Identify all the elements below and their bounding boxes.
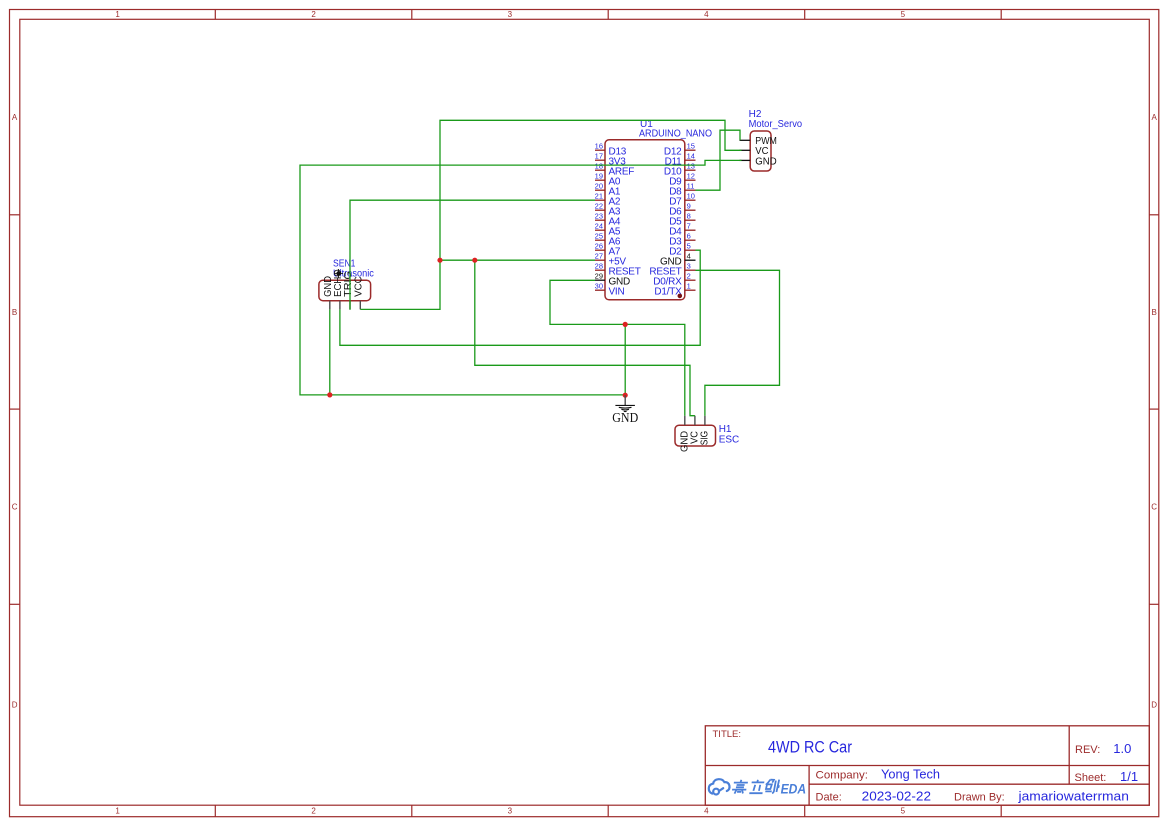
svg-text:1: 1: [115, 10, 120, 19]
pin 2 D0/RX (U1 right): [653, 272, 695, 288]
pin 8 D5 (U1 right): [669, 212, 695, 228]
svg-text:D: D: [1151, 701, 1157, 710]
svg-text:22: 22: [595, 202, 603, 211]
svg-text:1: 1: [115, 807, 120, 816]
wire net GND: SEN1.GND down to GND run: [329, 309, 331, 395]
IC U1 ARDUINO_NANO: [605, 119, 712, 300]
svg-text:Yong Tech: Yong Tech: [881, 766, 940, 781]
svg-text:4: 4: [687, 252, 691, 261]
svg-text:4WD RC Car: 4WD RC Car: [768, 739, 852, 757]
pin 11 D8 (U1 right): [669, 182, 695, 198]
svg-text:VCC: VCC: [353, 276, 364, 297]
svg-text:2: 2: [311, 10, 316, 19]
junction +5V / top wire: [437, 258, 442, 263]
svg-text:11: 11: [687, 182, 695, 191]
svg-text:C: C: [12, 503, 18, 512]
svg-text:3: 3: [508, 10, 513, 19]
svg-text:3: 3: [508, 807, 513, 816]
pin H1.VC: [689, 416, 700, 444]
svg-text:2023-02-22: 2023-02-22: [862, 788, 931, 803]
svg-text:C: C: [1151, 503, 1157, 512]
wire net GND: U1 pin 29 GND left-down to H1.GND: [550, 280, 685, 415]
svg-text:6: 6: [687, 232, 691, 241]
svg-text:5: 5: [901, 10, 906, 19]
svg-text:VIN: VIN: [609, 286, 625, 297]
svg-text:15: 15: [687, 142, 695, 151]
pin SEN1.ECHO: [333, 269, 344, 309]
wire net +5V: H2.VC to x440 vertical down to SEN1.VCC: [360, 120, 741, 309]
JLC EDA logo (cloud): [709, 779, 730, 794]
pin 27 +5V (U1 left): [595, 252, 627, 268]
svg-text:23: 23: [595, 212, 603, 221]
pin 28 RESET (U1 left): [595, 262, 641, 278]
pin 3 RESET (U1 right): [649, 262, 695, 278]
connector H1 ESC: [675, 424, 739, 446]
svg-text:3: 3: [687, 262, 691, 271]
wire net TRIG: U1 pin 21 A2 to SEN1.TRIG: [350, 200, 595, 310]
svg-text:REV:: REV:: [1075, 744, 1100, 756]
svg-text:14: 14: [687, 152, 695, 161]
U1 origin anchor dot (near D1/TX): [678, 294, 683, 299]
svg-text:Sheet:: Sheet:: [1075, 772, 1107, 784]
junction GND wire / SEN1.GND: [327, 392, 332, 397]
pin 16 D13 (U1 left): [595, 142, 627, 158]
pin 5 D2 (U1 right): [669, 242, 695, 258]
svg-text:Motor_Servo: Motor_Servo: [749, 119, 803, 130]
pin SEN1.TRIG: [343, 271, 354, 310]
svg-text:2: 2: [687, 272, 691, 281]
pin 21 A2 (U1 left): [595, 192, 621, 208]
svg-text:1.0: 1.0: [1113, 741, 1131, 756]
pin 20 A1 (U1 left): [595, 182, 621, 198]
connector H2 Motor_Servo: [749, 109, 803, 171]
wire net SIG: U1 pin 3 RESET right-down to H1.SIG: [696, 270, 780, 415]
svg-text:9: 9: [687, 202, 691, 211]
pin 10 D7 (U1 right): [669, 192, 695, 208]
svg-text:GND: GND: [612, 410, 638, 425]
svg-text:B: B: [12, 308, 17, 317]
pin SEN1.GND: [323, 276, 334, 309]
svg-text:21: 21: [595, 192, 603, 201]
svg-text:2: 2: [311, 807, 316, 816]
pin 29 GND (U1 left): [595, 272, 630, 288]
svg-text:27: 27: [595, 252, 603, 261]
wire net PWM: U1 pin 11 D8 up-right to H2.PWM: [696, 130, 741, 190]
svg-text:20: 20: [595, 182, 603, 191]
junction +5V / H1.VC branch: [472, 258, 477, 263]
svg-text:ARDUINO_NANO: ARDUINO_NANO: [639, 129, 712, 140]
svg-text:B: B: [1152, 308, 1157, 317]
pin 17 3V3 (U1 left): [595, 152, 627, 168]
svg-text:4: 4: [704, 10, 709, 19]
wire net ECHO: U1 pin 5 D2 down-left to SEN1.ECHO: [340, 250, 700, 345]
wire net GND: junction to ground symbol drop: [624, 324, 626, 395]
pin 23 A4 (U1 left): [595, 212, 621, 228]
svg-text:5: 5: [687, 242, 691, 251]
JLC EDA logo text (approximated CJK strokes): [732, 780, 780, 794]
junction GND wire / ground drop: [623, 322, 628, 327]
svg-text:jamariowaterrman: jamariowaterrman: [1017, 789, 1129, 803]
pin 18 AREF (U1 left): [595, 162, 635, 178]
pin 22 A3 (U1 left): [595, 202, 621, 218]
wire net GND: H2.GND long run left, down x300, right to ground junction: [300, 160, 742, 395]
wire net +5V: junction x440 to U1 pin 27 +5V: [440, 259, 595, 261]
SEN1 origin anchor mark: [334, 269, 343, 278]
svg-text:A: A: [1152, 113, 1158, 122]
svg-text:19: 19: [595, 172, 603, 181]
svg-text:10: 10: [687, 192, 695, 201]
svg-text:Company:: Company:: [816, 770, 869, 782]
title block text fields: [713, 729, 1139, 803]
pin 1 D1/TX (U1 right): [654, 282, 695, 298]
svg-text:GND: GND: [755, 156, 776, 167]
svg-text:29: 29: [595, 272, 603, 281]
pin H2.PWM: [740, 136, 777, 147]
svg-text:EDA: EDA: [781, 781, 807, 797]
svg-text:30: 30: [595, 282, 603, 291]
svg-text:25: 25: [595, 232, 603, 241]
pin 15 D12 (U1 right): [664, 142, 696, 158]
pin 14 D11 (U1 right): [665, 152, 696, 168]
wire net +5V: junction x474.5 down to H1.VC: [475, 260, 695, 416]
svg-text:26: 26: [595, 242, 603, 251]
svg-text:8: 8: [687, 212, 691, 221]
svg-text:17: 17: [595, 152, 603, 161]
pin SEN1.VCC: [353, 276, 364, 309]
title block: [705, 726, 1149, 805]
svg-text:24: 24: [595, 222, 603, 231]
svg-text:D: D: [12, 701, 18, 710]
pin 9 D6 (U1 right): [669, 202, 695, 218]
pin 13 D10 (U1 right): [664, 162, 696, 178]
pin 25 A6 (U1 left): [595, 232, 621, 248]
pin 12 D9 (U1 right): [669, 172, 695, 188]
pin H2.VC: [740, 146, 769, 157]
svg-text:28: 28: [595, 262, 603, 271]
pin 7 D4 (U1 right): [669, 222, 695, 238]
svg-text:12: 12: [687, 172, 695, 181]
svg-text:1/1: 1/1: [1120, 769, 1138, 784]
pin 19 A0 (U1 left): [595, 172, 621, 188]
svg-text:TITLE:: TITLE:: [713, 729, 742, 740]
svg-text:7: 7: [687, 222, 691, 231]
svg-text:16: 16: [595, 142, 603, 151]
pin H2.GND: [740, 156, 777, 167]
ground GND net flag: [612, 395, 638, 425]
pin H1.SIG: [699, 416, 710, 446]
svg-text:1: 1: [687, 282, 691, 291]
svg-text:ESC: ESC: [719, 434, 740, 445]
svg-text:Drawn By:: Drawn By:: [954, 791, 1005, 803]
svg-text:18: 18: [595, 162, 603, 171]
junction GND wire / ground symbol: [623, 393, 628, 398]
pin 6 D3 (U1 right): [669, 232, 695, 248]
pin 26 A7 (U1 left): [595, 242, 621, 258]
svg-text:5: 5: [901, 807, 906, 816]
svg-text:A: A: [12, 113, 18, 122]
svg-text:13: 13: [687, 162, 695, 171]
pin 30 VIN (U1 left): [595, 282, 625, 298]
pin 24 A5 (U1 left): [595, 222, 621, 238]
pin 4 GND (U1 right): [660, 252, 695, 268]
connector SEN1 Ultrasonic: [319, 259, 374, 301]
svg-text:Date:: Date:: [816, 791, 842, 803]
svg-text:SIG: SIG: [699, 431, 710, 446]
pin H1.GND: [679, 416, 690, 452]
svg-text:4: 4: [704, 807, 709, 816]
